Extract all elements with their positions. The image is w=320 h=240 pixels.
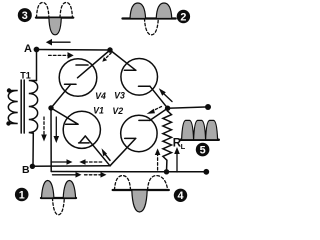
current arrow solid right (below bottom rail): [53, 172, 82, 178]
svg-text:L: L: [181, 142, 186, 151]
waveform 5 gray rectified lobes: [182, 120, 218, 139]
waveform 1 gray positive lobes: [42, 181, 76, 199]
current arrow dashed diagonal J1 to V4: [102, 53, 111, 62]
waveform 4 gray negative lobe: [132, 190, 147, 212]
svg-text:V4: V4: [95, 91, 106, 101]
waveform 1 dashed negative lobe: [53, 198, 65, 215]
current arrow solid left (top): [46, 39, 70, 46]
svg-text:V2: V2: [112, 106, 123, 116]
svg-text:B: B: [22, 164, 30, 176]
node B: [30, 164, 35, 169]
waveform 1 axis: [41, 197, 76, 199]
waveform 2 axis: [123, 17, 176, 19]
output terminal bottom: [203, 169, 209, 175]
svg-text:4: 4: [177, 190, 183, 202]
current arrow dashed left (above B wire): [79, 159, 101, 165]
svg-text:2: 2: [180, 11, 186, 23]
wire B to bridge bottom vertex: [32, 165, 110, 168]
current arrow dashed down (left of J2 wire): [41, 117, 47, 142]
current arrow solid right (above B wire): [51, 159, 73, 165]
waveform 5 axis: [180, 138, 218, 141]
callout 1: [15, 188, 29, 202]
wire bottom rail to output: [51, 171, 206, 173]
transformer T1 secondary winding: [29, 81, 38, 134]
svg-text:V1: V1: [93, 106, 104, 116]
svg-text:A: A: [24, 43, 32, 55]
callout 5: [196, 143, 210, 157]
wire J2 down: [50, 108, 52, 172]
current arrow dashed right (top): [49, 52, 74, 59]
current arrow solid diagonal into V3: [159, 88, 172, 101]
current arrow dashed right (below bottom rail): [85, 172, 107, 178]
node A: [34, 47, 40, 53]
current arrow solid down (right of J2 wire): [54, 117, 60, 143]
node J2: [48, 105, 53, 110]
wire secondary bottom to B: [32, 133, 34, 166]
node RL bottom junction: [164, 169, 169, 174]
svg-text:3: 3: [22, 10, 28, 22]
svg-text:V3: V3: [114, 91, 125, 101]
callout 4: [174, 189, 187, 202]
callout 3: [18, 8, 32, 22]
waveform 4 axis: [113, 189, 169, 191]
current arrow solid up (right of RL): [174, 147, 180, 172]
current arrow solid diagonal into V1: [102, 148, 111, 160]
transformer T1 core: [21, 80, 24, 133]
waveform 4 dashed positive lobes: [115, 176, 168, 190]
primary terminal top: [7, 88, 11, 92]
primary terminal bottom: [6, 121, 10, 125]
waveform 3 gray negative lobe: [49, 18, 61, 35]
svg-text:5: 5: [200, 145, 206, 157]
tube V4: [51, 50, 110, 108]
current arrow dashed up (left of RL): [155, 148, 161, 170]
transformer T1 primary winding: [8, 91, 17, 124]
node J3: [165, 106, 170, 111]
output terminal top: [205, 104, 211, 110]
svg-text:1: 1: [19, 189, 25, 201]
waveform 2 dashed negative lobe: [145, 19, 159, 35]
waveform 2 gray positive lobes: [130, 3, 172, 19]
svg-text:T1: T1: [20, 71, 31, 81]
wire A to junction J1: [37, 49, 111, 52]
resistor RL: [163, 108, 172, 172]
tube V1: [51, 108, 110, 166]
node J1: [107, 47, 112, 52]
callout 2: [177, 10, 190, 23]
waveform 3 axis: [36, 16, 73, 18]
waveform 3 dashed positive lobes: [37, 3, 73, 18]
tube V3: [110, 50, 168, 108]
wire A to secondary top: [36, 50, 38, 81]
wire J3 to output terminal top: [168, 107, 205, 108]
current arrow dashed diagonal J3 to V2: [147, 107, 162, 114]
tube V2: [110, 108, 168, 166]
